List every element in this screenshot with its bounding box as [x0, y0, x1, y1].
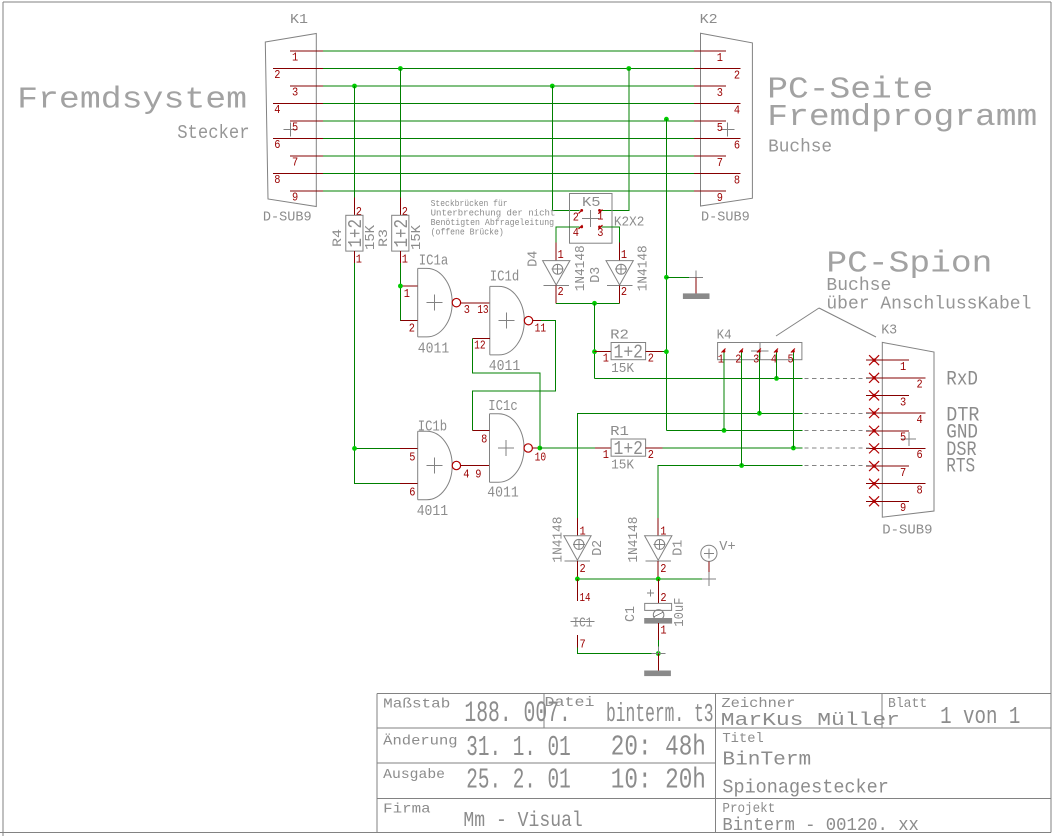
wire RxD row: [595, 377, 803, 379]
junction pin2 line / K5 pin1 drop: [626, 66, 631, 71]
svg-text:9: 9: [717, 192, 723, 205]
svg-text:8: 8: [481, 434, 487, 447]
svg-text:10uF: 10uF: [673, 598, 688, 627]
page border left: [2, 2, 4, 836]
junction RTS / K4 pin2: [739, 463, 744, 468]
svg-text:BinTerm: BinTerm: [722, 749, 811, 771]
IC1 power pin 7: [576, 635, 578, 648]
svg-text:Fremdprogramm: Fremdprogramm: [767, 100, 1037, 135]
svg-text:1 von 1: 1 von 1: [940, 704, 1020, 731]
gate IC1d input pin 12: [472, 338, 490, 340]
ground symbol right: bar: [683, 294, 709, 299]
dashed link DSR: [805, 447, 870, 449]
K1 pin 9: [290, 190, 323, 192]
svg-text:13: 13: [477, 304, 489, 317]
svg-text:7: 7: [292, 157, 298, 170]
K3 pin 1: [866, 359, 909, 361]
K4 pin 3 wire drop: [758, 353, 760, 414]
wire IC1d output to IC1c pin8: [472, 321, 555, 431]
svg-text:15K: 15K: [410, 224, 425, 250]
svg-text:5: 5: [788, 354, 794, 367]
svg-text:6: 6: [734, 140, 740, 153]
svg-text:D4: D4: [527, 251, 542, 267]
connector K1 anchor cross: [284, 129, 298, 131]
svg-text:Maßstab: Maßstab: [383, 697, 450, 713]
K1 pin 3: [290, 85, 323, 87]
svg-text:1: 1: [603, 353, 609, 366]
K3 pin 7 cut X mark: [869, 461, 879, 471]
svg-text:D1: D1: [672, 540, 687, 556]
svg-text:K3: K3: [881, 323, 897, 339]
K3 pin 8 cut X mark: [869, 479, 879, 489]
svg-text:1: 1: [621, 249, 627, 262]
resistor R4 pin 2: [354, 197, 356, 215]
svg-text:1: 1: [558, 249, 564, 262]
wire V+ rail D2-D1-C1-V+: [577, 578, 709, 580]
svg-text:3: 3: [717, 87, 723, 100]
diode D3 triangle: [606, 261, 633, 285]
wire net line 3 K1-K2: [323, 85, 694, 87]
K2 pin 9: [694, 190, 726, 192]
svg-text:7: 7: [717, 157, 723, 170]
K4 pin 1 wire drop: [723, 353, 725, 431]
svg-text:R4: R4: [330, 229, 345, 247]
svg-text:20: 48h: 20: 48h: [611, 731, 706, 764]
svg-text:10: 10: [535, 451, 547, 464]
K1 pin 1: [290, 50, 323, 52]
svg-text:2: 2: [648, 353, 654, 366]
junction GND / gnd symbol branch: [664, 275, 669, 280]
K3 pin 9 cut X mark: [869, 496, 879, 506]
diode D1 glass circle: [655, 539, 665, 549]
svg-text:D-SUB9: D-SUB9: [263, 209, 312, 225]
wire IC1d pin12 to IC1c output node: [472, 339, 540, 448]
K4 pin 4 wire drop: [776, 353, 778, 379]
diode D2 pin 2 (cathode): [576, 561, 578, 579]
svg-text:R3: R3: [376, 229, 391, 247]
wire DSR row from R1 pin2: [662, 447, 802, 449]
svg-text:6: 6: [409, 486, 415, 499]
op-amp/gate IC1b body 4011 NAND: [418, 431, 453, 500]
dashed link DTR: [805, 412, 870, 414]
K4 pin 5 wire drop: [792, 353, 794, 449]
title block row line 3: [377, 798, 1051, 800]
svg-text:4011: 4011: [418, 340, 450, 357]
wire K5 pin4 to D4: [556, 227, 579, 243]
capacitor C1 symbol circle: [653, 610, 664, 621]
svg-text:9: 9: [900, 502, 906, 515]
svg-text:4: 4: [274, 104, 280, 117]
K4 pin 3 mark: [757, 349, 761, 353]
supply symbol V+ circle: [701, 545, 717, 561]
K3 pin 6 cut X mark: [869, 443, 879, 453]
wire R3 to IC1a inputs: [399, 263, 401, 321]
svg-text:1: 1: [603, 449, 609, 462]
pointer line to K4: [776, 308, 819, 336]
K5 pin 4 mark: [579, 225, 583, 229]
svg-text:1+2: 1+2: [614, 438, 644, 460]
resistor R3 pin 1: [399, 251, 401, 263]
svg-text:Fremdsystem: Fremdsystem: [17, 82, 247, 117]
junction D1 cathode / C1: [656, 577, 661, 582]
gate IC1a plus cross: [426, 302, 442, 304]
svg-text:C1: C1: [624, 606, 639, 622]
diode D4 cathode bar: [543, 285, 569, 287]
junction IC1c output node: [537, 446, 542, 451]
K3 pin 9: [866, 500, 909, 502]
gate IC1c output bubble: [524, 444, 532, 452]
diode D1 cathode bar: [645, 560, 671, 562]
K3 pin 7: [866, 465, 909, 467]
wire net line 1 K1-K2: [323, 50, 694, 52]
resistor R3 body: [392, 215, 409, 251]
capacitor C1 pin 1: [657, 623, 659, 640]
K3 pin 3: [866, 394, 909, 396]
op-amp/gate IC1a body 4011 NAND: [418, 268, 453, 337]
svg-text:D-SUB9: D-SUB9: [701, 209, 750, 225]
wire D4/D3 net down to R2 pin1 and RxD row: [594, 303, 596, 378]
ground symbol bottom: pin: [657, 654, 659, 672]
gate IC1b output pin 4 wire to IC1c pin 9: [461, 465, 490, 467]
svg-text:6: 6: [917, 449, 923, 462]
K1 pin 2: [273, 68, 323, 70]
svg-text:K2X2: K2X2: [614, 215, 645, 231]
diode D4 triangle: [543, 261, 570, 285]
svg-text:Stecker: Stecker: [177, 122, 249, 144]
diode D4 pin 1 (anode): [555, 243, 557, 261]
wire IC1b pin5 branch: [355, 447, 401, 449]
svg-text:12: 12: [474, 339, 486, 352]
svg-text:IC1d: IC1d: [490, 268, 520, 285]
svg-text:10: 20h: 10: 20h: [611, 764, 706, 797]
wire C1 pin1 to ground node: [657, 640, 659, 654]
diode D1 pin 1 (anode): [657, 518, 659, 536]
wire R2 pin2 to GND net: [662, 351, 666, 353]
svg-text:4: 4: [917, 414, 923, 427]
svg-text:RTS: RTS: [946, 456, 975, 479]
resistor R1 pin 1: [595, 447, 611, 449]
wire K5 pin2 drop from pin3 line: [552, 86, 579, 210]
gate IC1a output bubble: [452, 298, 460, 306]
svg-text:7: 7: [580, 639, 586, 652]
svg-text:4011: 4011: [417, 503, 449, 520]
diode D2 glass circle: [574, 539, 584, 549]
svg-text:8: 8: [734, 175, 740, 188]
wire net line 5 K1-K2: [323, 120, 694, 122]
resistor R1 body: [611, 439, 646, 456]
gate IC1a output pin 3 wire to IC1d pin 13: [461, 302, 490, 304]
junction IC1b pin5 / R4 net: [352, 446, 357, 451]
resistor R2 pin 2: [646, 351, 663, 353]
gate IC1b input pin 5: [400, 447, 418, 449]
svg-text:RxD: RxD: [946, 368, 978, 391]
gate IC1a input pin 2: [400, 320, 418, 322]
capacitor C1 bottom plate (polarized): [645, 619, 672, 624]
title block outer/left edge: [376, 694, 378, 833]
svg-text:V+: V+: [719, 540, 735, 555]
wire IC1 pin7 to ground node: [577, 648, 658, 654]
K1 pin 5: [290, 120, 323, 122]
gate IC1b plus cross: [426, 465, 442, 467]
K2 pin 1: [694, 50, 726, 52]
diode D3 glass circle: [616, 264, 626, 274]
diode D4 pin 2 (cathode): [555, 286, 557, 304]
svg-text:Änderung: Änderung: [383, 731, 457, 749]
connector K3 body: [882, 342, 934, 517]
resistor R2 pin 1: [595, 351, 612, 353]
svg-text:31. 1. 01: 31. 1. 01: [466, 731, 570, 764]
svg-text:IC1a: IC1a: [419, 253, 449, 270]
wire K5 pin1 drop from pin2 line: [602, 69, 629, 211]
connector K1 body: [265, 34, 316, 207]
gate IC1c output pin 10 stub: [532, 447, 539, 449]
ground symbol right: pin: [695, 277, 697, 294]
wire GND net vertical from K2 pin5: [665, 119, 667, 430]
K1 pin 8: [273, 173, 323, 175]
svg-text:2: 2: [580, 563, 586, 576]
svg-text:4: 4: [463, 468, 469, 481]
junction R2 pin2 / GND net: [664, 349, 669, 354]
title block row line 2 (left): [377, 762, 715, 764]
K3 pin 3 cut X mark: [869, 390, 879, 400]
svg-text:5: 5: [409, 451, 415, 464]
K3 pin 1 cut X mark: [869, 355, 879, 365]
K1 pin 4: [273, 103, 323, 105]
svg-text:1: 1: [660, 525, 666, 538]
junction DSR / K4 pin5: [791, 446, 796, 451]
gate IC1a input pin 1: [400, 285, 418, 287]
wire net line 2 K1-K2: [323, 68, 694, 70]
K5 pin 1 mark: [599, 210, 603, 214]
junction GND / K4 pin1: [722, 428, 727, 433]
diode D1 triangle: [645, 536, 672, 560]
junction K1 pin2 / R3: [398, 66, 403, 71]
supply V+ cross at pin end: [702, 578, 716, 580]
svg-text:11: 11: [535, 323, 547, 336]
title block divider Blatt: [881, 694, 883, 728]
K4 pin 2 wire drop: [741, 353, 743, 466]
svg-text:2: 2: [734, 70, 740, 83]
svg-text:5: 5: [717, 122, 723, 135]
svg-text:8: 8: [274, 174, 280, 187]
resistor R4 body: [346, 215, 363, 251]
gate IC1d output pin 11 stub: [533, 320, 542, 322]
svg-text:2: 2: [660, 563, 666, 576]
title block divider main: [714, 694, 716, 833]
K3 pin 5 cut X mark: [869, 426, 879, 436]
svg-text:1: 1: [717, 52, 723, 65]
svg-text:1: 1: [580, 525, 586, 538]
junction K1 pin3 / R4: [352, 84, 357, 89]
K2 pin 2: [694, 68, 741, 70]
K2 pin 5: [694, 120, 726, 122]
svg-text:2: 2: [735, 354, 741, 367]
svg-text:1N4148: 1N4148: [552, 517, 567, 563]
svg-text:K4: K4: [717, 328, 732, 344]
connector K2 anchor cross: [720, 129, 734, 131]
svg-text:IC1c: IC1c: [488, 398, 518, 415]
resistor R2 body: [611, 343, 646, 360]
wire RTS row and drop to D1: [658, 466, 802, 518]
svg-text:1: 1: [900, 361, 906, 374]
K2 pin 8: [694, 173, 741, 175]
junction RxD / K4 pin4: [774, 376, 779, 381]
K3 pin 2: [866, 377, 926, 379]
resistor R1 pin 2: [646, 447, 663, 449]
svg-text:2: 2: [573, 212, 579, 225]
K1 pin 7: [290, 155, 323, 157]
header K4 anchor cross: [751, 350, 768, 352]
diode D4 glass circle: [553, 264, 563, 274]
K3 pin 2 cut X mark: [869, 373, 879, 383]
svg-text:15K: 15K: [611, 362, 635, 377]
gate IC1d output bubble: [524, 316, 532, 324]
capacitor C1 top plate: [645, 603, 672, 610]
svg-text:IC1b: IC1b: [418, 418, 448, 435]
svg-text:Mm - Visual: Mm - Visual: [463, 810, 582, 833]
dashed link RxD: [805, 377, 870, 379]
svg-text:1: 1: [402, 254, 408, 267]
svg-text:2: 2: [402, 206, 408, 219]
wire DTR row and drop to D2: [578, 413, 803, 518]
svg-text:5: 5: [900, 432, 906, 445]
K3 pin 6: [866, 447, 926, 449]
K2 pin 6: [694, 138, 741, 140]
ground symbol right: cross: [689, 276, 703, 278]
svg-text:7: 7: [900, 467, 906, 480]
svg-text:2: 2: [621, 286, 627, 299]
svg-text:Binterm - 00120. xx: Binterm - 00120. xx: [722, 815, 919, 836]
junction D2 cathode / rail: [575, 577, 580, 582]
K3 pin 4: [866, 412, 926, 414]
svg-text:2: 2: [274, 69, 280, 82]
K4 pin 1 mark: [722, 349, 726, 353]
resistor R3 pin 2: [399, 197, 401, 215]
svg-text:Buchse: Buchse: [768, 136, 832, 157]
svg-text:14: 14: [580, 592, 591, 605]
svg-text:1: 1: [292, 52, 298, 65]
junction R2 pin1: [592, 349, 597, 354]
op-amp/gate IC1d body 4011 NAND: [490, 286, 525, 355]
svg-text:4: 4: [573, 227, 579, 240]
svg-text:D3: D3: [589, 267, 604, 283]
diode D2 pin 1 (anode): [576, 518, 578, 536]
wire R4 net to IC1b inputs: [355, 263, 401, 483]
svg-text:K2: K2: [700, 12, 718, 28]
K2 pin 3: [694, 85, 726, 87]
page border bottom: [0, 832, 1051, 834]
wire R4 top from pin3 line: [354, 86, 356, 197]
junction D4/D3 net to R2: [592, 301, 597, 306]
K1 pin 6: [273, 138, 323, 140]
diode D2 cathode bar: [565, 560, 591, 562]
diode D3 pin 1 (anode): [619, 243, 621, 261]
K3 pin 5: [866, 430, 909, 432]
svg-text:1: 1: [597, 211, 603, 224]
svg-text:1N4148: 1N4148: [574, 245, 589, 291]
junction pin5 line / GND net: [664, 117, 669, 122]
svg-text:K5: K5: [582, 195, 601, 211]
wire branch to gnd symbol: [666, 276, 696, 278]
wire D4-D3 cathodes: [556, 302, 619, 304]
svg-text:1: 1: [356, 254, 362, 267]
diode D3 pin 2 (cathode): [619, 286, 621, 304]
wire net line 7 K1-K2: [323, 155, 694, 157]
wire net line 6 K1-K2: [323, 138, 694, 140]
svg-text:25. 2. 01: 25. 2. 01: [466, 764, 570, 797]
dashed link RTS: [805, 465, 870, 467]
ground symbol bottom: cross: [651, 653, 665, 655]
svg-text:Titel: Titel: [722, 731, 763, 747]
K5 pin 2 mark: [579, 210, 583, 214]
svg-text:5: 5: [292, 122, 298, 135]
svg-text:2: 2: [648, 449, 654, 462]
svg-text:D-SUB9: D-SUB9: [882, 523, 932, 539]
svg-text:1+2: 1+2: [614, 342, 644, 364]
svg-text:8: 8: [917, 484, 923, 497]
wire K5 pin3 to D3: [602, 227, 620, 243]
ground symbol bottom: bar: [645, 671, 671, 676]
svg-text:1: 1: [718, 354, 724, 367]
svg-text:6: 6: [274, 139, 280, 152]
page border top: [3, 1, 1051, 3]
page border right: [1050, 2, 1052, 832]
IC1 power pin 14: [576, 579, 578, 601]
diode D1 pin 2 (cathode): [657, 561, 659, 579]
junction DTR / K4 pin3: [757, 411, 762, 416]
K3 pin 4 cut X mark: [869, 408, 879, 418]
svg-text:binterm. t3: binterm. t3: [606, 700, 714, 729]
svg-text:3: 3: [597, 227, 603, 240]
svg-text:3: 3: [900, 396, 906, 409]
title block row line 1: [377, 727, 1051, 729]
svg-text:Blatt: Blatt: [888, 696, 927, 712]
gate IC1d plus cross: [499, 320, 515, 322]
svg-text:4: 4: [734, 105, 740, 118]
diode D2 triangle: [564, 536, 591, 560]
title block divider Datei: [543, 694, 545, 728]
svg-text:3: 3: [464, 304, 470, 317]
jumper K5 body: [570, 194, 613, 244]
gate IC1c input pin 8: [472, 430, 489, 432]
diode D3 cathode bar: [607, 285, 633, 287]
capacitor C1 plus sign: [647, 592, 654, 594]
connector K3 anchor cross: [902, 438, 916, 440]
wire net line 9 K1-K2: [323, 190, 694, 192]
op-amp/gate IC1c body 4011 NAND: [490, 414, 525, 483]
capacitor C1 pin 2: [657, 579, 659, 604]
gate IC1b input pin 6: [400, 482, 418, 484]
K5 pin 3 mark: [599, 225, 603, 229]
jumper K5 anchor cross: [582, 218, 599, 220]
svg-text:9: 9: [475, 468, 481, 481]
svg-text:2: 2: [409, 323, 415, 336]
svg-text:4011: 4011: [487, 484, 519, 501]
K3 pin 8: [866, 483, 926, 485]
connector K2 body: [701, 33, 753, 206]
K4 pin 2 mark: [739, 349, 743, 353]
wire IC1c output to R1 pin1: [540, 447, 595, 449]
supply V+ pin: [708, 561, 710, 579]
junction pin3 line / K5 pin2 drop: [550, 84, 555, 89]
dashed link GND: [805, 429, 870, 431]
gate IC1c plus cross: [498, 447, 514, 449]
svg-text:Spionagestecker: Spionagestecker: [722, 776, 888, 798]
svg-text:9: 9: [292, 192, 298, 205]
svg-text:3: 3: [292, 87, 298, 100]
wire net line 4 K1-K2: [323, 103, 694, 105]
svg-text:Datei: Datei: [545, 695, 595, 711]
